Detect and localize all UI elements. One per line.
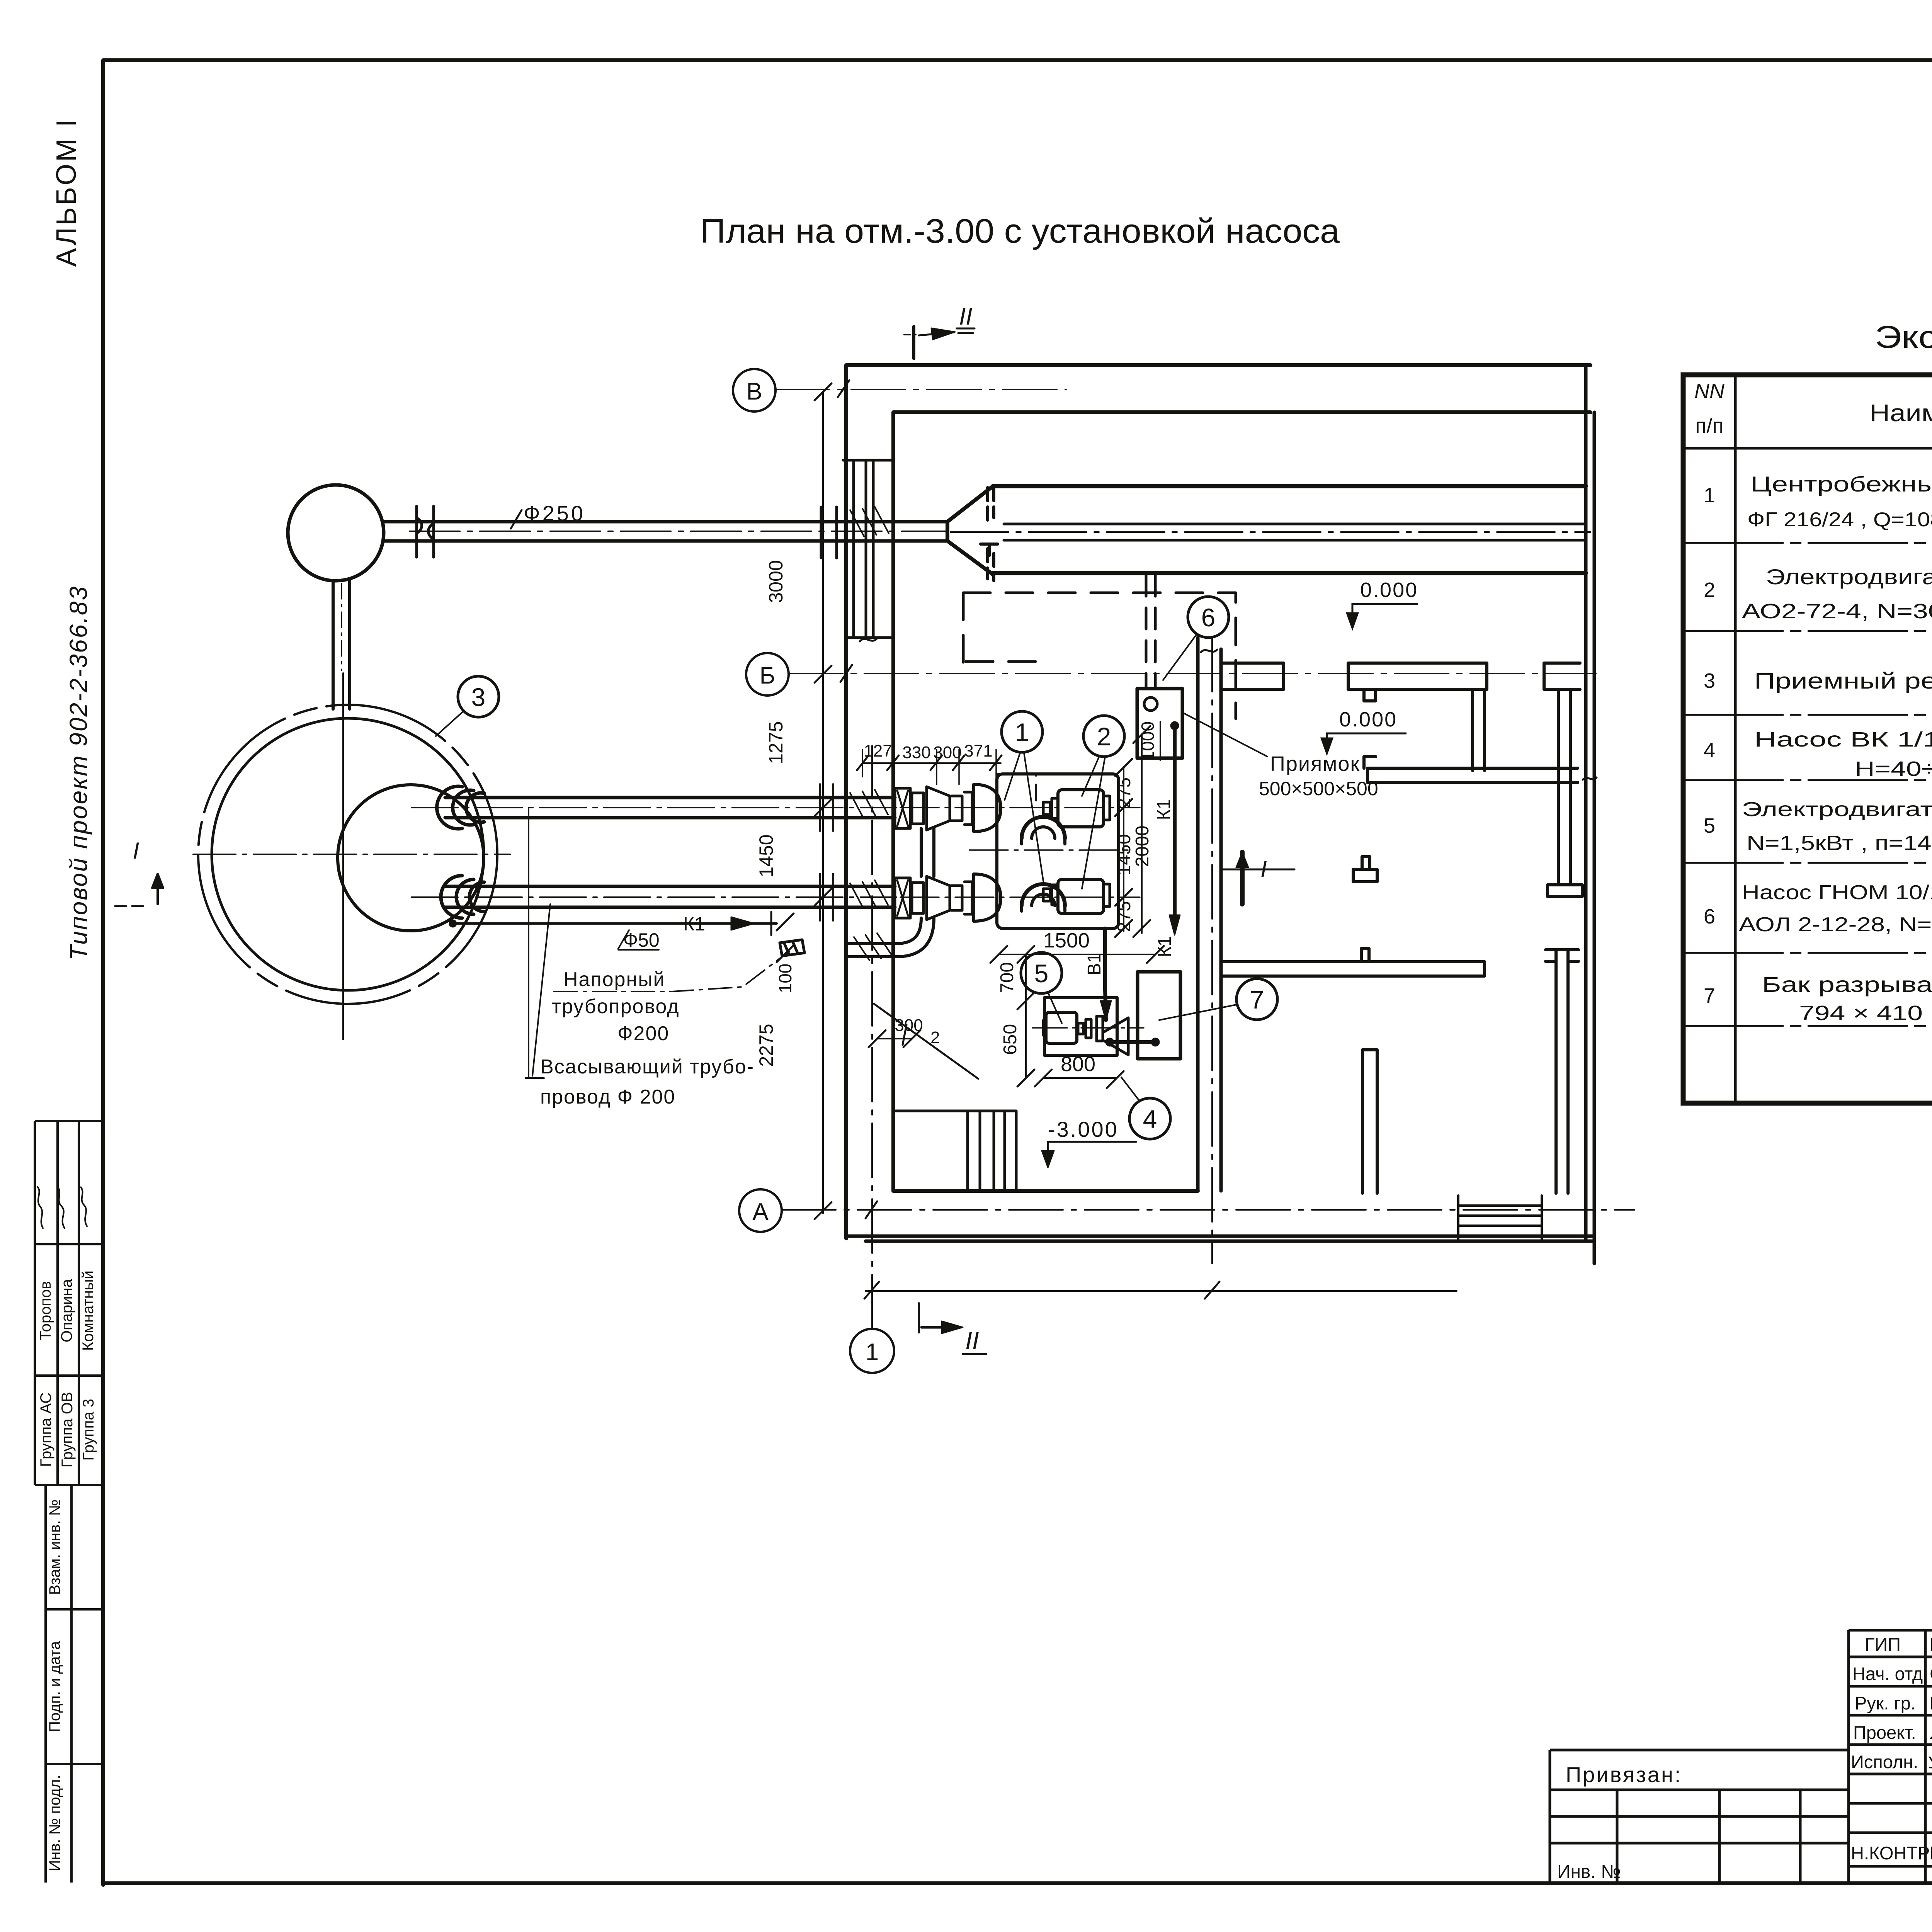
dim 300 xyxy=(877,1038,912,1039)
stairs xyxy=(896,1111,1016,1191)
svg-text:NN: NN xyxy=(1694,379,1725,403)
grid circle A xyxy=(739,1189,782,1232)
callout 6 xyxy=(1188,597,1229,638)
svg-text:трубопровод: трубопровод xyxy=(552,995,680,1018)
svg-text:300: 300 xyxy=(933,743,961,762)
discharge elbow to wall xyxy=(849,918,934,957)
svg-text:Ульянычева: Ульянычева xyxy=(1928,1753,1932,1772)
channel bottom edge xyxy=(993,571,1586,575)
funnel gate T mark xyxy=(981,544,998,556)
wall on axis B segments xyxy=(1221,663,1284,689)
svg-text:АЛЬБОМ I: АЛЬБОМ I xyxy=(51,117,82,267)
tank 7 xyxy=(1138,972,1180,1059)
svg-text:Инв. № подл.: Инв. № подл. xyxy=(46,1775,63,1871)
svg-text:Привязан:: Привязан: xyxy=(1566,1762,1682,1787)
svg-text:Приямок: Приямок xyxy=(1270,752,1360,776)
left outer wall xyxy=(844,365,848,1238)
top small dimension chain xyxy=(862,762,1001,764)
svg-text:371: 371 xyxy=(964,742,992,760)
lower bypass loop omega xyxy=(1022,884,1065,906)
level mark -3.000 xyxy=(1048,1117,1119,1141)
svg-text:0.000: 0.000 xyxy=(1339,708,1397,731)
reservoir horizontal centerline xyxy=(193,854,510,855)
reservoir inner sump circle xyxy=(338,785,484,931)
pit leader xyxy=(1183,713,1267,757)
pipe break marks xyxy=(417,506,434,557)
callout 5 xyxy=(1021,952,1062,993)
right room wall vertical xyxy=(1546,950,1578,1193)
section I mark left xyxy=(152,874,163,904)
channel centerline xyxy=(951,531,1590,533)
dim 700 650 xyxy=(1025,954,1027,1078)
svg-text:К1: К1 xyxy=(1154,799,1174,820)
svg-text:АОЛ 2-12-28, N=1,1 кВт , п=28: АОЛ 2-12-28, N=1,1 кВт , п=2830об/мин xyxy=(1739,913,1932,936)
spare pump dashed xyxy=(997,774,1036,810)
upper pipe flange arcs xyxy=(437,786,484,829)
svg-text:1500: 1500 xyxy=(1043,929,1090,952)
section I mark right xyxy=(1221,869,1294,871)
svg-text:Комнатный: Комнатный xyxy=(80,1270,97,1351)
receiving well circle xyxy=(288,485,384,581)
svg-text:2: 2 xyxy=(1704,578,1715,602)
svg-text:Группа 3: Группа 3 xyxy=(80,1399,97,1461)
bottom outer wall xyxy=(846,1236,1594,1241)
riser pipe between pumps xyxy=(921,828,934,876)
lower motor 2 xyxy=(1043,885,1058,905)
svg-text:800: 800 xyxy=(1061,1053,1095,1076)
svg-text:500×500×500: 500×500×500 xyxy=(1259,778,1378,799)
svg-text:7: 7 xyxy=(1704,984,1715,1007)
sump pit pryamok xyxy=(1137,689,1182,758)
svg-text:Всасывающий трубо-: Всасывающий трубо- xyxy=(540,1056,754,1078)
svg-text:II: II xyxy=(959,303,972,330)
K1 standpipe dashed xyxy=(1146,575,1155,689)
drain pipe K1 F50 xyxy=(453,922,777,925)
svg-text:Экспликация оборудования: Экспликация оборудования xyxy=(1875,320,1932,355)
svg-text:6: 6 xyxy=(1201,603,1216,632)
svg-text:0.000: 0.000 xyxy=(1360,578,1418,602)
level mark 0.000 first xyxy=(1347,604,1418,629)
right dimension chain near pumps xyxy=(1123,767,1124,931)
level mark 0.000 second xyxy=(1321,733,1406,754)
lower partition vertical xyxy=(1362,1050,1377,1193)
header bottom line xyxy=(1683,447,1932,450)
svg-text:I: I xyxy=(133,838,139,864)
DIMENSIONS LEFT CHAIN xyxy=(822,392,824,1213)
svg-text:План на отм.-3.00 с установкой: План на отм.-3.00 с установкой насоса xyxy=(700,212,1340,250)
dim 800 xyxy=(1043,1077,1117,1079)
pit drain circle xyxy=(1144,697,1157,711)
pit label xyxy=(1259,752,1378,799)
pump axes centerlines xyxy=(900,808,1140,897)
svg-text:1: 1 xyxy=(1704,484,1715,507)
svg-text:Торопов: Торопов xyxy=(37,1281,54,1340)
PUMP HALL INTERIOR xyxy=(755,383,1378,1219)
svg-text:ФГ 216/24 , Q=108÷304м³/час, Н: ФГ 216/24 , Q=108÷304м³/час, Н=25,5÷15м xyxy=(1747,509,1932,531)
EQUIPMENT TABLE xyxy=(1683,375,1932,1103)
svg-text:Пушкина: Пушкина xyxy=(1930,1693,1932,1713)
section II mark top xyxy=(912,327,915,359)
lower pump casing xyxy=(974,874,1001,921)
svg-text:1275: 1275 xyxy=(765,721,787,764)
svg-text:2275: 2275 xyxy=(755,1024,777,1066)
svg-text:Напорный: Напорный xyxy=(563,968,665,991)
pressure label leader xyxy=(554,951,789,992)
wall break tilde outer right xyxy=(1583,777,1597,780)
svg-text:3000: 3000 xyxy=(765,560,787,603)
right outer wall xyxy=(1586,365,1594,1264)
left inner wall xyxy=(891,412,895,1191)
table row lines xyxy=(1683,543,1932,1026)
stair diagonal xyxy=(874,1004,978,1079)
suction label leaders xyxy=(526,809,550,1078)
pump5 to tank pipe xyxy=(1108,1040,1156,1044)
svg-text:Проект.: Проект. xyxy=(1853,1722,1916,1743)
drain arrowhead xyxy=(731,917,754,930)
svg-text:300: 300 xyxy=(895,1016,923,1035)
svg-text:Подп. и дата: Подп. и дата xyxy=(46,1641,63,1732)
svg-text:700: 700 xyxy=(997,962,1017,993)
svg-text:Группа ОВ: Группа ОВ xyxy=(59,1392,76,1468)
group table xyxy=(35,1121,103,1485)
grid line B xyxy=(789,673,1596,674)
svg-text:К1: К1 xyxy=(1155,936,1175,957)
svg-text:7: 7 xyxy=(1250,985,1264,1014)
svg-text:N=1,5кВт , п=1400 об/мин: N=1,5кВт , п=1400 об/мин xyxy=(1747,832,1932,855)
svg-text:1450: 1450 xyxy=(1114,834,1134,876)
svg-text:А: А xyxy=(752,1199,769,1225)
svg-text:Бак разрыва струи разм.: Бак разрыва струи разм. xyxy=(1762,972,1932,997)
vestibule walls xyxy=(843,460,893,638)
svg-text:100: 100 xyxy=(775,964,795,993)
wall hatch at suction crossings xyxy=(850,790,888,818)
svg-text:Центробежный насос марки: Центробежный насос марки xyxy=(1750,472,1932,496)
svg-text:1: 1 xyxy=(866,1339,879,1366)
reservoir outer circle xyxy=(198,705,497,1004)
svg-text:Ф200: Ф200 xyxy=(617,1022,669,1045)
pipe F250 xyxy=(384,522,947,541)
svg-text:Ф50: Ф50 xyxy=(623,929,660,951)
callout 3 xyxy=(458,676,499,717)
callout 1 xyxy=(1002,711,1043,752)
svg-text:1: 1 xyxy=(1015,718,1029,747)
svg-text:В: В xyxy=(746,378,762,405)
lower pump unit 1 xyxy=(895,878,910,918)
pump platform xyxy=(997,774,1119,929)
long partition vertical xyxy=(1548,689,1582,896)
TITLE BLOCK xyxy=(1550,1630,1932,1907)
svg-text:Насос ГНОМ 10/10 с электродвиг: Насос ГНОМ 10/10 с электродвигателем xyxy=(1742,881,1932,904)
svg-text:Опарина: Опарина xyxy=(58,1279,75,1342)
svg-text:Исполн.: Исполн. xyxy=(1851,1752,1918,1772)
svg-text:Ф250: Ф250 xyxy=(524,501,585,526)
grid circle V xyxy=(733,369,776,412)
RIGHT WING xyxy=(1221,663,1582,1241)
upper suction pipe xyxy=(445,798,895,818)
wall break tilde xyxy=(860,638,877,641)
wall hatch at pipe crossing xyxy=(854,933,893,960)
reservoir vertical centerline xyxy=(342,673,344,1039)
svg-text:Н.КОНТР: Н.КОНТР xyxy=(1851,1843,1930,1863)
svg-text:К1: К1 xyxy=(683,913,705,935)
svg-text:330: 330 xyxy=(902,743,930,762)
grid line V xyxy=(776,389,1066,390)
svg-text:-3.000: -3.000 xyxy=(1048,1117,1119,1141)
upper pump casing xyxy=(974,784,1001,832)
svg-text:650: 650 xyxy=(1000,1024,1020,1055)
grid circle 1 xyxy=(850,1329,894,1373)
reservoir item 3 circle xyxy=(212,718,484,990)
column T mark xyxy=(1353,857,1377,882)
pump 5 impeller xyxy=(1097,1016,1103,1041)
upper bypass loop omega xyxy=(1022,817,1065,838)
monorail dashed outline xyxy=(963,593,1236,719)
inventory table xyxy=(46,1485,103,1883)
svg-text:5: 5 xyxy=(1704,814,1715,837)
drop elbow box xyxy=(780,940,804,956)
svg-text:6: 6 xyxy=(1704,905,1715,928)
K1 riser line xyxy=(1173,726,1177,925)
dim 1000 xyxy=(1160,722,1161,760)
partition room1 horizontal xyxy=(1364,757,1578,782)
table column lines xyxy=(1735,375,1932,1103)
callout 2 xyxy=(1083,716,1124,757)
PLAN DRAWING xyxy=(114,303,1634,1373)
svg-text:Семенова: Семенова xyxy=(1930,1663,1932,1684)
grid line 1 vertical xyxy=(871,746,873,1329)
svg-text:Пушкина: Пушкина xyxy=(1930,1843,1932,1863)
svg-text:4: 4 xyxy=(1704,739,1715,762)
grid line 2 vertical xyxy=(1211,638,1213,1264)
svg-text:II: II xyxy=(965,1327,979,1355)
svg-text:275: 275 xyxy=(1114,901,1134,932)
svg-text:Электродвигатель тип: Электродвигатель тип xyxy=(1766,565,1932,589)
svg-text:Нач. отд.: Нач. отд. xyxy=(1852,1663,1928,1684)
lower suction pipe xyxy=(445,886,895,907)
svg-text:Наименование: Наименование xyxy=(1869,400,1932,427)
pipe break marks right xyxy=(820,784,833,920)
svg-text:АО2-72-4, N=30кВт , п=1450 об/: АО2-72-4, N=30кВт , п=1450 об/мин xyxy=(1742,600,1932,623)
partition room1 vertical xyxy=(1473,689,1485,770)
upper pump unit 1 xyxy=(895,788,910,828)
svg-text:2000: 2000 xyxy=(1132,826,1153,867)
svg-text:5: 5 xyxy=(1034,959,1049,988)
svg-text:2: 2 xyxy=(1097,722,1111,751)
svg-text:Электродвигатель типа АОЛ-2-22: Электродвигатель типа АОЛ-2-22-4 xyxy=(1742,798,1932,821)
channel top edge xyxy=(993,484,1586,488)
grid line A xyxy=(782,1209,1634,1211)
svg-text:4: 4 xyxy=(1143,1105,1157,1133)
svg-text:Насос ВК 1/16 Q=1,1÷3,7м³/ч: Насос ВК 1/16 Q=1,1÷3,7м³/час xyxy=(1754,728,1932,751)
svg-text:Инв. №: Инв. № xyxy=(1557,1862,1621,1882)
funnel gate dashes xyxy=(988,488,994,581)
grid circle B xyxy=(746,653,789,696)
margin signatures xyxy=(37,1186,87,1229)
funnel arrow xyxy=(947,486,993,575)
LEFT BOTTOM TABLES xyxy=(35,1121,103,1883)
B1 drain line xyxy=(1105,929,1106,1020)
lower pipe flange arcs xyxy=(441,876,484,918)
svg-text:Типовой проект 902-2-366.83: Типовой проект 902-2-366.83 xyxy=(65,585,92,960)
svg-text:3: 3 xyxy=(1704,669,1715,692)
bottom inner wall pump hall xyxy=(893,1189,1198,1193)
stairwell box bottom xyxy=(1458,1196,1542,1241)
pipe F250 centerline xyxy=(410,531,947,532)
privyazan table xyxy=(1550,1750,1849,1885)
svg-text:1000: 1000 xyxy=(1138,721,1158,761)
svg-text:3: 3 xyxy=(471,683,486,711)
svg-text:Б: Б xyxy=(760,662,776,689)
top inner wall xyxy=(893,410,1590,414)
svg-text:В1: В1 xyxy=(1084,953,1105,976)
staff table xyxy=(1849,1630,1932,1885)
svg-text:Группа АС: Группа АС xyxy=(37,1393,54,1467)
svg-text:Левинтон: Левинтон xyxy=(1930,1722,1932,1743)
axis 1-2 dimension line xyxy=(866,1290,1457,1292)
upper motor 2 xyxy=(1043,798,1058,818)
section II mark bottom xyxy=(918,1303,920,1332)
svg-text:Барсуков: Барсуков xyxy=(1930,1634,1932,1655)
channel inner pipe xyxy=(1004,524,1586,540)
svg-text:провод Ф 200: провод Ф 200 xyxy=(540,1086,675,1108)
connecting pipe well to reservoir xyxy=(333,582,350,709)
svg-text:794 × 410 × 800(h): 794 × 410 × 800(h) xyxy=(1799,1002,1932,1025)
dim 1500 xyxy=(999,954,1155,955)
svg-text:Приемный резервуар Ф 3м: Приемный резервуар Ф 3м xyxy=(1754,668,1932,694)
table outer border xyxy=(1683,375,1932,1103)
top outer wall xyxy=(846,363,1590,367)
svg-text:I: I xyxy=(1260,856,1267,882)
pump 5 motor xyxy=(1046,1012,1077,1043)
svg-text:п/п: п/п xyxy=(1695,414,1724,437)
callout 4 xyxy=(1129,1098,1170,1139)
svg-text:275: 275 xyxy=(1114,777,1134,808)
pump5 axis xyxy=(1032,1027,1144,1029)
labels pipes xyxy=(524,501,754,1108)
callout 7 xyxy=(1236,979,1277,1020)
wall hatch at F250 crossing xyxy=(850,507,889,536)
partition row2 xyxy=(1222,949,1485,976)
label tick xyxy=(511,510,522,529)
svg-text:127: 127 xyxy=(864,742,892,760)
svg-text:2: 2 xyxy=(930,1028,940,1047)
svg-text:1450: 1450 xyxy=(755,834,777,877)
pump 5 platform xyxy=(1044,998,1117,1055)
pump hall right wall xyxy=(1198,638,1221,1191)
svg-text:Взам. инв. №: Взам. инв. № xyxy=(46,1499,63,1595)
svg-text:ГИП: ГИП xyxy=(1865,1634,1901,1655)
svg-text:Рук. гр.: Рук. гр. xyxy=(1855,1693,1916,1713)
svg-text:Н=40÷14м: Н=40÷14м xyxy=(1855,757,1932,781)
wall break tilde right wall xyxy=(1201,650,1217,652)
